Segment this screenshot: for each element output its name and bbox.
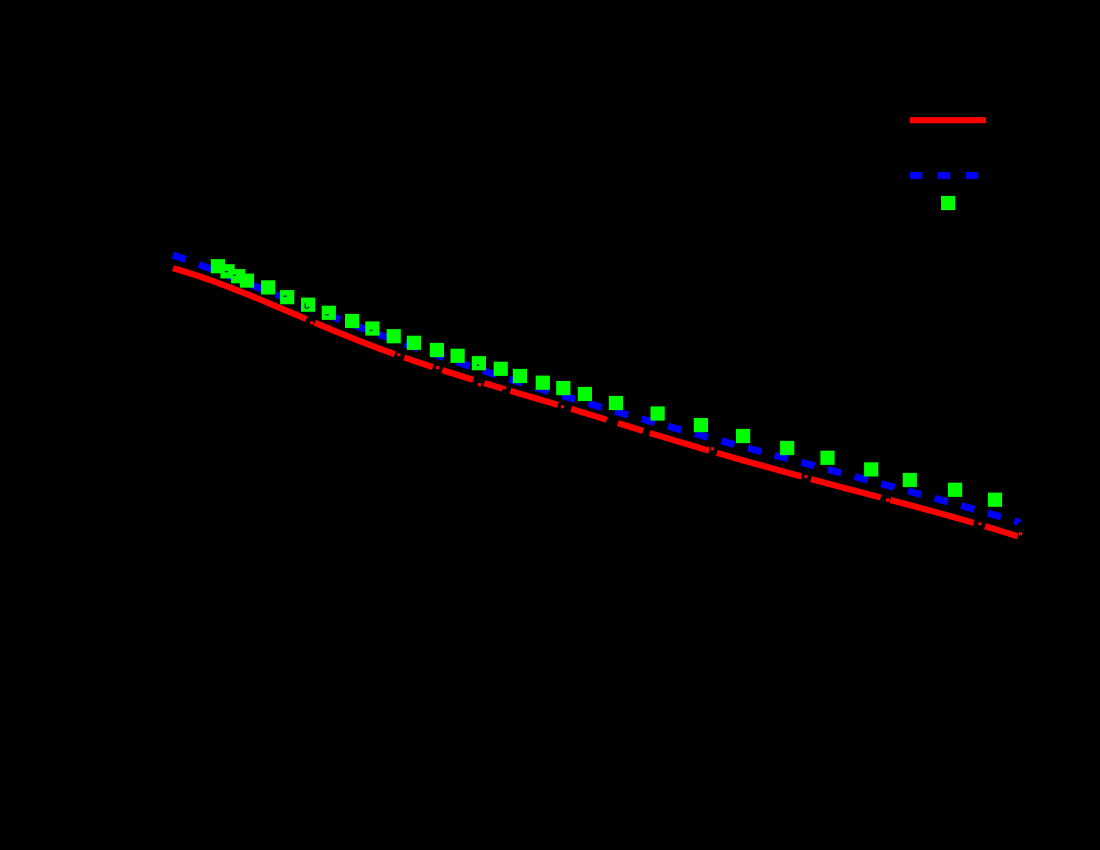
red solid curve (series 1) xyxy=(173,268,1018,536)
legend: green square sample xyxy=(941,196,955,210)
green square markers (series 3) xyxy=(211,259,1002,507)
blue curve end dot xyxy=(1019,520,1021,522)
legend: red solid line sample xyxy=(910,117,986,123)
blue dashed curve (series 2) xyxy=(173,255,1019,522)
legend: blue dashed line sample xyxy=(910,172,986,179)
small red dash-dot dots in nicks xyxy=(310,321,1022,535)
faint dark marks inside squares xyxy=(225,272,479,366)
black nicks over red curve xyxy=(304,315,986,532)
